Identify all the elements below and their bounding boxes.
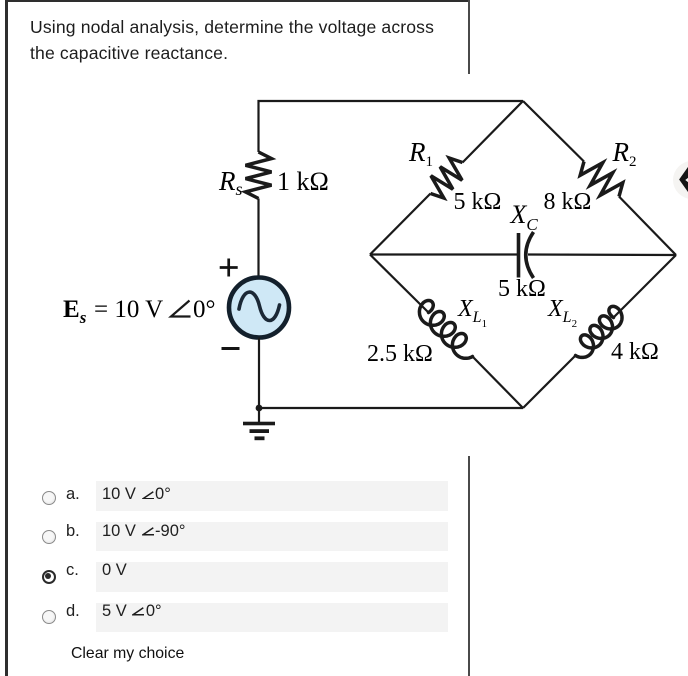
- wire: bridge edge left-top (lower part): [370, 194, 431, 255]
- junction node dot: [256, 405, 263, 412]
- svg-text:5 kΩ: 5 kΩ: [454, 189, 502, 215]
- svg-text:8 kΩ: 8 kΩ: [544, 189, 592, 215]
- wire: bridge edge right-top (lower part): [619, 197, 676, 256]
- svg-text:4 kΩ: 4 kΩ: [611, 339, 659, 365]
- AC source Es: [229, 278, 289, 338]
- inductor XL2: [576, 306, 623, 357]
- option b row: [96, 522, 448, 552]
- wire: bridge edge left-bottom (upper part): [370, 255, 429, 313]
- wire: capacitor to middle right: [528, 253, 676, 256]
- circuit drawing: [0, 74, 688, 456]
- svg-text:= 10 V: = 10 V: [94, 296, 163, 323]
- frame right border: [468, 0, 469, 676]
- wire: bottom from junction to bridge bottom: [259, 407, 523, 409]
- wire: source - terminal down to ground junction: [258, 338, 260, 409]
- pointer arrow icon at right edge: [673, 161, 688, 199]
- clear my choice link: [71, 646, 184, 662]
- wire: bridge edge right-bottom (lower part): [523, 356, 576, 409]
- frame top border: [5, 0, 469, 2]
- angle symbol for Es: [171, 301, 191, 317]
- sine wave inside source: [239, 292, 280, 320]
- resistor R2: [580, 162, 623, 197]
- svg-text:0°: 0°: [193, 296, 216, 323]
- option c row (selected): [96, 562, 448, 592]
- wire: bridge edge left-top (upper part): [463, 101, 524, 163]
- wire: bridge edge right-bottom (upper part): [614, 255, 677, 318]
- svg-text:1 kΩ: 1 kΩ: [277, 167, 329, 196]
- resistor Rs: [246, 152, 272, 199]
- inductor XL1: [419, 301, 472, 359]
- frame left border: [5, 0, 8, 676]
- wire: Rs to source + terminal: [257, 199, 259, 278]
- wire: bridge edge left-bottom (lower part): [473, 357, 524, 409]
- wire: top from source to bridge top: [259, 101, 524, 152]
- resistor R1: [431, 158, 463, 198]
- option a row: [96, 481, 448, 511]
- question text: [30, 14, 470, 66]
- wire: middle left to capacitor: [370, 253, 518, 255]
- svg-text:2.5 kΩ: 2.5 kΩ: [367, 341, 433, 367]
- option d row: [96, 603, 448, 633]
- capacitor XC plates: [517, 233, 521, 278]
- label + polarity: [220, 259, 238, 277]
- ground symbol: [258, 408, 260, 422]
- wire: bridge edge right-top (upper part): [523, 101, 584, 162]
- svg-text:5 kΩ: 5 kΩ: [498, 276, 546, 302]
- label - polarity: [222, 347, 240, 350]
